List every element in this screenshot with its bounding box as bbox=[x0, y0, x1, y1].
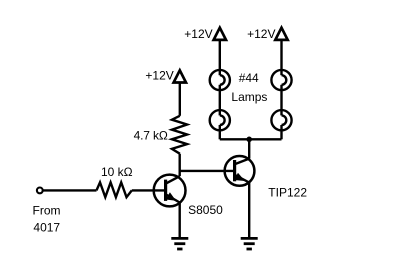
wire: Q2 emitter to ground bbox=[248, 183, 250, 239]
svg-text:10 kΩ: 10 kΩ bbox=[101, 165, 133, 179]
input terminal J1 bbox=[37, 188, 43, 194]
svg-text:4.7 kΩ: 4.7 kΩ bbox=[134, 129, 168, 143]
transistor Q2 TIP122 bbox=[225, 156, 255, 186]
svg-text:Lamps: Lamps bbox=[231, 90, 267, 104]
lamp DS3 (#44) bbox=[271, 70, 291, 90]
wire: DS2 to lamp bus bbox=[219, 125, 221, 139]
node junction dot on lamp bus bbox=[246, 137, 252, 143]
svg-text:S8050: S8050 bbox=[188, 203, 223, 217]
wire: DS1 to DS2 bbox=[219, 85, 221, 116]
wire: DS4 to lamp bus bbox=[280, 125, 282, 139]
svg-text:#44: #44 bbox=[239, 71, 259, 85]
lamp DS1 (#44) bbox=[210, 70, 230, 90]
power +12V supply arrow (left) bbox=[174, 70, 186, 82]
svg-text:4017: 4017 bbox=[33, 221, 60, 235]
wire: node A to Q2 base bbox=[180, 170, 235, 172]
lamp DS4 (#44) bbox=[271, 110, 291, 130]
svg-text:TIP122: TIP122 bbox=[268, 185, 307, 199]
power +12V supply arrow (top left column) bbox=[214, 28, 226, 40]
ground G1 bbox=[171, 238, 188, 249]
wire: lamp bus horizontal bbox=[220, 138, 282, 140]
wire: DS3 to DS4 bbox=[280, 85, 282, 116]
wire: arrow to lamp DS3 bbox=[280, 40, 282, 75]
ground G2 bbox=[241, 238, 258, 249]
wire: arrow to lamp DS1 bbox=[219, 40, 221, 75]
svg-text:+12V: +12V bbox=[247, 27, 275, 41]
svg-text:+12V: +12V bbox=[145, 68, 173, 82]
lamp DS2 (#44) bbox=[210, 110, 230, 130]
wire: Q1 collector up to node A bbox=[178, 154, 180, 177]
wire: R1 to Q1 base bbox=[132, 189, 166, 191]
wire: R2 top to +12V arrow bbox=[179, 83, 181, 116]
svg-text:+12V: +12V bbox=[184, 27, 212, 41]
wire: terminal to R1 bbox=[43, 189, 97, 191]
resistor R1 10 kOhm bbox=[97, 182, 132, 197]
resistor R2 4.7 kOhm bbox=[172, 116, 187, 154]
power +12V supply arrow (top right column) bbox=[275, 28, 287, 40]
svg-text:From: From bbox=[33, 204, 61, 218]
transistor Q1 S8050 bbox=[154, 175, 186, 207]
wire: Q2 collector up to lamp bus bbox=[248, 139, 250, 158]
wire: Q1 emitter to ground bbox=[178, 203, 180, 239]
